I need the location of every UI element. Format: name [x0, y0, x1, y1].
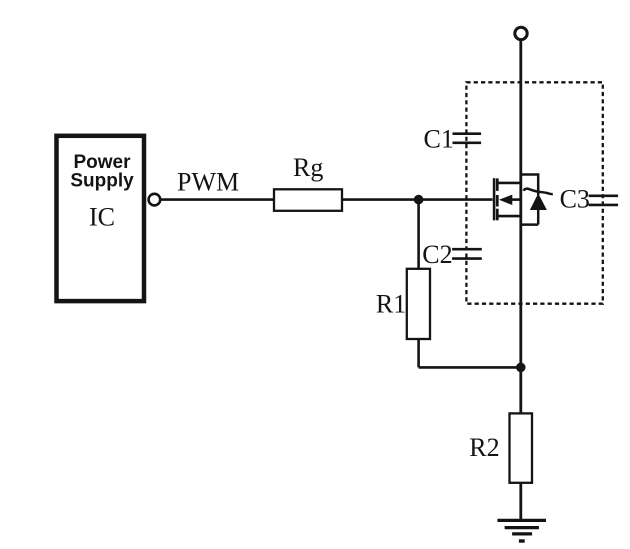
svg-text:Supply: Supply — [70, 171, 134, 192]
svg-text:Rg: Rg — [293, 153, 323, 182]
svg-text:R2: R2 — [469, 433, 499, 462]
svg-text:R1: R1 — [376, 289, 406, 318]
svg-text:C1: C1 — [424, 125, 454, 154]
svg-text:IC: IC — [89, 203, 115, 232]
svg-text:C3: C3 — [560, 185, 590, 214]
svg-text:PWM: PWM — [177, 167, 239, 196]
svg-text:C2: C2 — [422, 240, 452, 269]
